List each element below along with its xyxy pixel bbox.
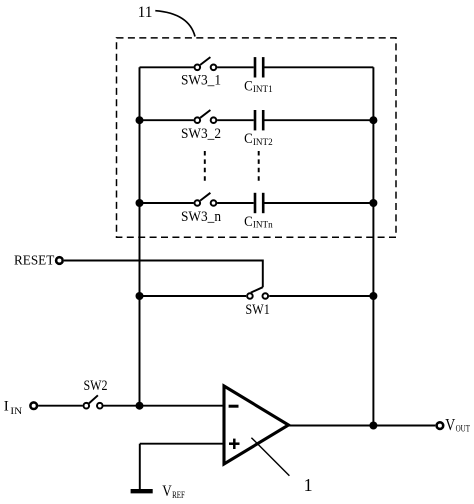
svg-text:INT2: INT2 xyxy=(253,137,273,148)
svg-text:RESET: RESET xyxy=(14,254,55,269)
left rail wire xyxy=(139,67,141,405)
svg-text:C: C xyxy=(244,214,253,230)
wire SW3_1 to C_INT1 xyxy=(217,66,254,68)
wire SW2 to op-amp inverting input xyxy=(104,405,225,407)
junction dot right rail SW1 xyxy=(369,292,377,300)
svg-text:SW3_2: SW3_2 xyxy=(181,126,221,142)
svg-text:C: C xyxy=(244,78,253,94)
wire SW1 left xyxy=(140,295,247,297)
svg-text:REF: REF xyxy=(172,491,185,501)
wire non-inverting input xyxy=(140,443,224,445)
capacitor C_INT2 xyxy=(244,110,273,148)
label RESET xyxy=(14,254,55,269)
svg-text:V: V xyxy=(162,483,172,500)
label V_REF xyxy=(162,483,185,501)
terminal RESET xyxy=(56,257,63,264)
svg-text:SW3_n: SW3_n xyxy=(181,209,222,225)
ellipsis dashed wire under switches xyxy=(204,151,206,183)
ellipsis dashed wire under capacitors xyxy=(258,151,260,183)
svg-text:SW1: SW1 xyxy=(245,302,269,318)
junction dot inverting input node xyxy=(136,402,144,410)
svg-text:SW3_1: SW3_1 xyxy=(181,72,221,88)
terminal V_OUT xyxy=(437,422,444,429)
svg-text:C: C xyxy=(244,131,253,147)
wire C_INTn to right rail xyxy=(265,202,374,204)
label I_IN xyxy=(4,399,23,417)
svg-text:V: V xyxy=(445,415,455,434)
junction dot left rail branch 2 xyxy=(136,116,144,124)
wire C_INT2 to right rail xyxy=(265,119,374,121)
junction dot right rail branch n xyxy=(369,199,377,207)
wire C_INT1 to right rail xyxy=(265,66,374,68)
capacitor C_INTn xyxy=(244,193,273,231)
switch SW1 xyxy=(245,287,269,318)
dashed block 11 boundary xyxy=(117,38,397,237)
svg-text:INT1: INT1 xyxy=(253,84,273,95)
capacitor C_INT1 xyxy=(244,57,273,95)
junction dot right rail branch 2 xyxy=(369,116,377,124)
wire branch n left rail to SW3_n xyxy=(140,202,194,204)
leader line for op-amp label 1 xyxy=(251,438,289,476)
svg-text:SW2: SW2 xyxy=(84,378,108,394)
label 11 xyxy=(138,4,153,21)
svg-text:I: I xyxy=(4,399,9,415)
junction dot output node xyxy=(369,422,377,430)
label 1 xyxy=(304,475,313,495)
switch SW2 xyxy=(84,378,108,409)
leader arc for 11 xyxy=(155,11,195,37)
svg-text:11: 11 xyxy=(138,4,153,21)
wire SW1 right xyxy=(269,295,373,297)
wire RESET to SW1 lever xyxy=(64,261,263,288)
wire I_IN to SW2 xyxy=(38,405,83,407)
switch SW3_2 xyxy=(181,110,221,142)
ground xyxy=(131,489,153,493)
wire op-amp output xyxy=(289,425,436,427)
wire SW3_n to C_INTn xyxy=(217,202,254,204)
svg-text:IN: IN xyxy=(10,407,22,417)
right rail wire xyxy=(372,67,374,425)
wire branch 2 left rail to SW3_2 xyxy=(140,119,194,121)
junction dot left rail SW1 xyxy=(136,292,144,300)
op-amp U1 xyxy=(224,386,289,464)
terminal I_IN xyxy=(30,402,37,409)
svg-text:1: 1 xyxy=(304,475,313,495)
junction dot left rail branch n xyxy=(136,199,144,207)
svg-text:OUT: OUT xyxy=(456,424,470,435)
switch SW3_n xyxy=(181,193,222,225)
svg-text:INTn: INTn xyxy=(253,220,273,231)
wire SW3_2 to C_INT2 xyxy=(217,119,254,121)
label V_OUT xyxy=(445,415,470,434)
wire branch 1 left rail to SW3_1 xyxy=(140,66,194,68)
wire to ground xyxy=(139,444,141,489)
switch SW3_1 xyxy=(181,57,221,88)
